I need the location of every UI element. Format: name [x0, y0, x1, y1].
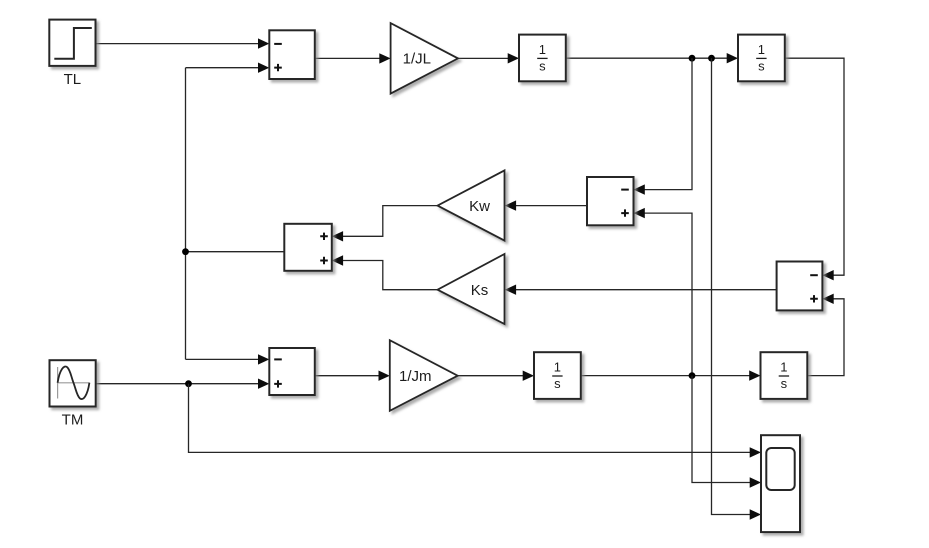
wire TL to Sum1 minus input — [96, 38, 269, 48]
wire integrator I2 to Sum5 minus input — [785, 58, 844, 280]
wire dot C up to Sum4 plus input — [634, 208, 693, 376]
junction dot C on I3 output — [689, 372, 696, 379]
scope block — [761, 435, 800, 532]
sum block Sum2 — [284, 224, 332, 271]
svg-text:1: 1 — [554, 360, 561, 375]
wire bus to Sum1 plus input — [186, 63, 270, 73]
wire dot C down to Scope input 2 — [692, 376, 761, 488]
step source block TL — [49, 20, 95, 66]
sum block Sum1 — [269, 30, 315, 79]
wire gain Kw to Sum2 top plus input — [332, 206, 438, 242]
label TM — [62, 412, 84, 429]
wire gain Ks to Sum2 bottom plus input — [332, 255, 438, 289]
svg-text:s: s — [539, 58, 546, 73]
junction dot A on I1 output (to Sum4 minus) — [689, 55, 696, 62]
junction dot E on TM output — [185, 380, 192, 387]
label TL — [64, 71, 82, 88]
svg-text:TM: TM — [62, 412, 84, 429]
wire dot B down to Scope input 3 — [712, 58, 762, 520]
svg-text:s: s — [554, 376, 561, 391]
sum block Sum3 — [269, 348, 315, 395]
sum block Sum5 — [777, 262, 823, 311]
svg-text:Kw: Kw — [469, 198, 490, 215]
wire integrator I4 to Sum5 plus input — [807, 294, 844, 376]
wire gain 1/JL to integrator I1 — [458, 53, 519, 63]
integrator block I4 (1/s) — [761, 352, 808, 399]
svg-text:TL: TL — [64, 71, 82, 88]
gain block 1/JL — [391, 23, 458, 94]
wire TM to Sum3 plus input — [96, 379, 269, 389]
wire Sum2 output to left vertical bus — [186, 68, 285, 360]
wire integrator I1 to integrator I2 — [566, 53, 738, 63]
junction dot B on I1 output (to Scope input 3) — [708, 55, 715, 62]
wire gain 1/Jm to integrator I3 — [458, 371, 534, 381]
svg-text:s: s — [781, 376, 788, 391]
svg-text:1: 1 — [539, 42, 546, 57]
sum block Sum4 — [587, 177, 634, 225]
sine source block TM — [50, 360, 96, 406]
integrator block I3 (1/s) — [534, 352, 581, 399]
wire integrator I3 to integrator I4 — [581, 370, 761, 380]
gain block 1/Jm — [390, 340, 458, 411]
wire Sum3 to gain 1/Jm — [315, 371, 390, 381]
svg-text:s: s — [758, 58, 765, 73]
integrator block I1 (1/s) — [519, 35, 566, 82]
integrator block I2 (1/s) — [738, 35, 785, 82]
wire Sum5 output to gain Ks — [505, 285, 777, 295]
junction dot D at Sum2 output on bus — [182, 248, 189, 255]
svg-text:Ks: Ks — [471, 282, 489, 299]
svg-text:1: 1 — [758, 42, 765, 57]
svg-text:1/JL: 1/JL — [403, 51, 431, 68]
wire bus to Sum3 minus input — [186, 354, 270, 364]
svg-text:1: 1 — [780, 360, 787, 375]
gain block Kw (points left) — [438, 170, 505, 240]
wire dot E down to Scope input 1 — [189, 384, 762, 458]
gain block Ks (points left) — [438, 254, 505, 324]
svg-text:1/Jm: 1/Jm — [399, 368, 432, 385]
wire Sum1 to gain 1/JL — [315, 53, 391, 63]
wire dot A down to Sum4 minus input — [634, 58, 693, 195]
wire Sum4 output to gain Kw — [505, 200, 587, 210]
